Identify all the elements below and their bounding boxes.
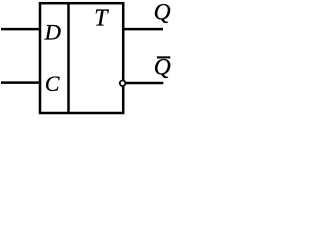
overline of Q-bar [157,56,170,58]
svg-text:C: C [45,72,60,96]
svg-text:Q: Q [154,0,171,26]
inversion bubble on Q-bar output [120,81,126,87]
wire: Q output [124,28,163,31]
wire: C input [1,81,39,84]
svg-text:T: T [94,6,109,32]
wire: Q-bar output [126,82,163,85]
svg-text:D: D [44,19,61,44]
divider line between input field and T field [67,3,70,113]
wire: D input [1,28,39,31]
flip-flop body (rectangle) [40,3,123,113]
